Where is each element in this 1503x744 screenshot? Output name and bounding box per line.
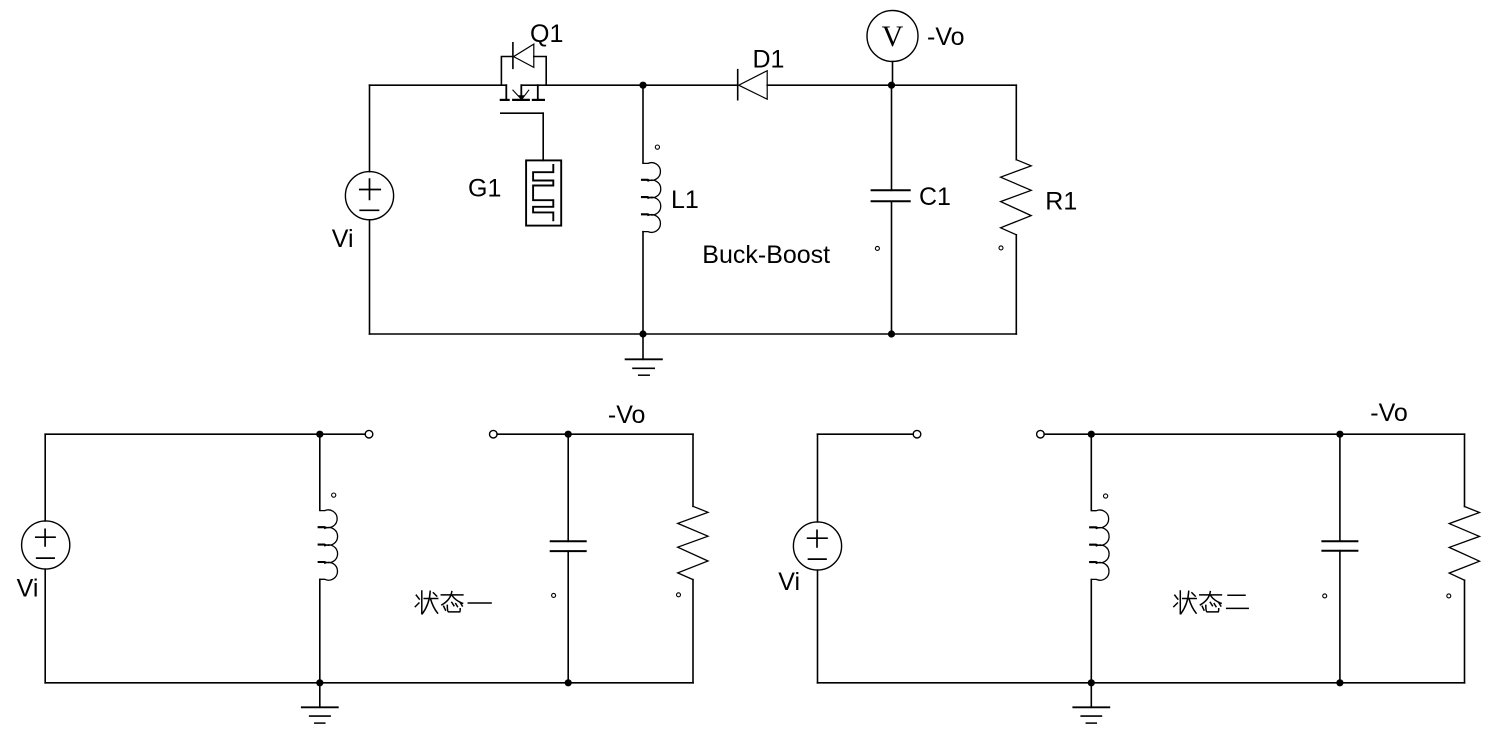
wire inductor lower (state 2) [1090,580,1092,683]
label state-1 (hand-drawn CJK) [415,591,491,614]
Q1 arrowhead [518,95,525,100]
voltage source Vi (bottom left) [22,521,70,569]
Q1 source stub [537,85,539,99]
svg-text:-Vo: -Vo [1370,399,1408,427]
Q1 body box right vertical [534,57,546,86]
wire capacitor upper (state 2) [1339,434,1341,541]
wire left vertical lower (state 2) [817,570,819,683]
wire right vertical lower (state 2) [1464,580,1466,683]
wire inductor upper (state 2) [1090,434,1092,510]
G1 square-wave glyph [533,165,553,220]
Q1 gate wire [542,113,544,160]
capacitor C1 [872,190,910,250]
node capacitor top (state 2) [1336,431,1343,438]
wire top segment B (Q1 source to D1 cathode) [521,84,737,86]
open terminal (switch side a, state 1) [365,430,373,438]
resistor marker circle (state 2) [1447,594,1451,598]
svg-text:R1: R1 [1045,188,1077,216]
capacitor (state 2) [1322,541,1357,598]
svg-text:L1: L1 [671,186,699,214]
inductor (state 1) [319,493,338,580]
Q1 drain plate [501,99,509,101]
svg-text:-Vo: -Vo [608,401,646,429]
wire open terminal to output section (state 1) [497,433,693,435]
wire bottom (state 2) [818,682,1465,684]
node L1 bottom [639,330,646,337]
wire top left (Vi to open terminal, state 2) [818,433,914,435]
ground (top circuit) [626,334,662,375]
Q1 middle stub [520,85,522,98]
svg-text:D1: D1 [753,46,785,74]
polarity dot (state 1 inductor) [332,493,336,497]
wire top left (Vi to inductor node) [45,433,320,435]
svg-text:Vi: Vi [332,225,354,253]
wire R1 upper [1015,85,1017,160]
diode D1 [738,70,768,100]
resistor marker circle (state 1) [677,593,681,597]
wire right vertical lower (state 1) [692,580,694,683]
resistor (state 2) [1447,507,1480,598]
wire left vertical lower (Vi to bottom) [369,220,371,334]
wire capacitor upper (state 1) [567,434,569,541]
capacitor marker circle (state 2) [1323,594,1327,598]
Q1 drain stub [505,85,507,99]
wire left vertical upper (state 2) [817,434,819,522]
inductor L1 [642,145,661,232]
glyph tai [441,594,463,596]
wire capacitor lower (state 2) [1339,551,1341,683]
wire left vertical upper [44,434,46,521]
svg-text:V: V [882,20,904,53]
Q1 arrow diagonals [513,90,529,98]
resistor (state 1) [677,506,709,597]
voltmeter V [867,11,918,86]
Q1 gate plate [501,112,543,114]
wire inductor upper (state 1) [319,434,321,510]
glyph zhuang [421,591,423,614]
wire inductor lower (state 1) [319,580,321,683]
glyph two [1228,594,1245,596]
wire L1 upper [642,85,644,163]
svg-text:G1: G1 [468,175,501,203]
ground (state 1) [302,683,338,723]
Q1 source plate [533,99,544,101]
svg-text:Q1: Q1 [530,20,563,48]
voltage source Vi (bottom right) [793,522,841,570]
wire bottom (state 1) [45,682,693,684]
glyph one [468,602,491,604]
Q1 body diode cathode bar [512,43,514,69]
Q1 middle plate [513,99,529,101]
open terminal (switch side b, state 1) [490,430,498,438]
wire stub to open terminal (state 1 switch) [320,433,365,435]
node capacitor bottom (state 2) [1336,679,1343,686]
node inductor top (state 1) [316,431,323,438]
polarity dot (state 2 inductor) [1104,494,1108,498]
capacitor (state 1) [551,541,586,597]
inductor (state 2) [1090,494,1109,580]
R1 marker circle [999,246,1003,250]
gate source G1 box [526,160,561,225]
node inductor bottom (state 1) [316,679,323,686]
node inductor top (state 2) [1088,431,1095,438]
Q1 body box left vertical [501,57,513,86]
node capacitor top (state 1) [565,431,572,438]
wire L1 lower [642,232,644,334]
L1 polarity dot [655,145,659,149]
wire right vertical upper (state 2) [1464,434,1466,506]
wire left vertical lower [44,569,46,683]
resistor R1 [999,160,1031,250]
capacitor marker circle (state 1) [552,593,556,597]
node L1 top [639,82,646,89]
wire top segment C (D1 anode to R1 corner) [767,84,1016,86]
wire open terminal to right section (state 2) [1044,433,1464,435]
D1 cathode bar [737,70,739,100]
wire top segment A (Vi to Q1 drain) [370,84,507,86]
wire R1 lower [1015,235,1017,334]
wire bottom (left rail) [370,333,1017,335]
open terminal (switch side b, state 2) [1037,430,1045,438]
svg-text:C1: C1 [919,183,951,211]
node inductor bottom (state 2) [1088,679,1095,686]
Q1 body diode triangle [514,44,534,67]
svg-text:Buck-Boost: Buck-Boost [702,241,830,269]
ground (state 2) [1073,683,1109,723]
wire left vertical upper (to Vi) [369,85,371,171]
node C1 top [888,82,895,89]
voltage source Vi (top) [345,172,393,220]
glyph tai [1200,594,1222,596]
D1 triangle [739,71,768,100]
node capacitor bottom (state 1) [565,679,572,686]
svg-text:Vi: Vi [17,575,39,603]
open terminal (switch side a, state 2) [913,430,921,438]
node C1 bottom [888,330,895,337]
C1 marker circle [875,246,879,250]
wire C1 upper [891,85,893,190]
svg-text:Vi: Vi [778,568,800,596]
glyph zhuang [1179,591,1181,614]
transistor Q1 (MOSFET with body diode) [501,43,546,161]
wire C1 lower [891,201,893,334]
svg-text:-Vo: -Vo [927,23,965,51]
label state-2 (hand-drawn CJK) [1174,591,1248,614]
wire capacitor lower (state 1) [567,551,569,683]
wire right vertical upper (state 1) [692,434,694,506]
